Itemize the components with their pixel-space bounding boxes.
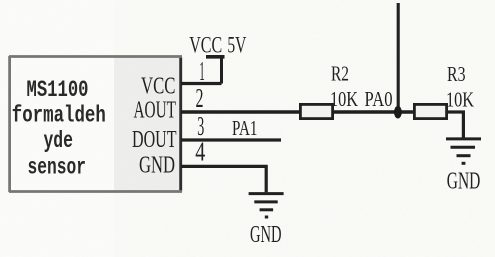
resistor R2	[300, 104, 332, 118]
ground symbol (middle) bar3	[260, 208, 274, 211]
ground symbol (right) bar3	[457, 154, 471, 157]
IC pin box right border	[179, 57, 182, 192]
ground symbol (middle) bar1	[249, 192, 284, 195]
wire R2 to node PA0	[334, 110, 415, 113]
wire pin 4 (GND)	[181, 166, 266, 192]
ground symbol (right) bar2	[451, 146, 476, 149]
junction node PA0	[394, 106, 402, 119]
ground symbol (right) bar1	[446, 137, 481, 140]
ground symbol (middle) bar4	[265, 216, 268, 219]
wire vertical to power bar	[220, 58, 223, 84]
ground symbol (middle) bar2	[254, 200, 277, 203]
vertical wire from top to node PA0	[397, 3, 400, 112]
wire pin 2 (AOUT) to R2	[181, 110, 300, 113]
resistor R3	[414, 104, 446, 118]
IC pin box U1 (gray fill)	[114, 56, 182, 192]
wire R3 to ground corner	[448, 112, 464, 138]
wire pin 3 (DOUT) net PA1	[181, 138, 281, 141]
wire pin 1 (VCC)	[181, 82, 222, 85]
sensor annotation box left border	[8, 56, 11, 192]
power bar VCC 5V	[206, 55, 225, 59]
sensor annotation box fill	[11, 58, 114, 190]
boxes shared top border	[9, 55, 182, 58]
ground symbol (right) bar4	[462, 162, 466, 165]
boxes shared bottom border	[9, 190, 182, 193]
